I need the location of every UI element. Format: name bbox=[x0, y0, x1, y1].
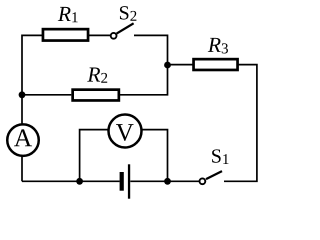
wire: S2 fixed contact, right and down to R2 right pin bbox=[120, 35, 168, 94]
switch S2 blade bbox=[117, 23, 134, 33]
voltmeter letter V bbox=[116, 124, 134, 141]
label S1 bbox=[212, 149, 228, 164]
wire: R3 right pin, down right side, to S1 fixed contact bbox=[224, 65, 257, 182]
wire: voltmeter right leg to bottom junction bbox=[141, 130, 168, 182]
wire: S1 hinge to battery positive plate bbox=[130, 180, 199, 182]
wire: junction to R3 left pin bbox=[168, 64, 194, 66]
label R2 bbox=[87, 68, 107, 83]
label S2 bbox=[120, 6, 136, 21]
wire: battery negative plate to bottom-left corner bbox=[22, 180, 120, 182]
battery B1 negative plate (short thick) bbox=[120, 172, 124, 191]
wire: left junction to R2 left pin bbox=[22, 94, 71, 96]
ammeter letter A bbox=[14, 129, 32, 146]
ammeter A1 circle bbox=[7, 124, 39, 156]
label R3 bbox=[208, 38, 228, 54]
wire: ammeter bottom to bottom-left corner bbox=[21, 156, 23, 182]
switch S1 hinge circle bbox=[200, 178, 206, 184]
node: junction of voltmeter right leg on bottom wire bbox=[164, 178, 171, 185]
label R1 bbox=[58, 7, 78, 22]
switch S2 hinge circle bbox=[111, 33, 117, 39]
wire: voltmeter left leg from bottom junction up and right to voltmeter bbox=[80, 130, 109, 182]
switch S1 blade bbox=[206, 171, 222, 179]
resistor R3 bbox=[194, 59, 238, 70]
wire: from R1 left pin, top-left corner, down left side to ammeter top bbox=[22, 35, 44, 124]
voltmeter V1 circle bbox=[109, 115, 142, 148]
node: junction of S2/R2 branch with R3 branch bbox=[164, 62, 171, 69]
resistor R2 bbox=[73, 90, 119, 101]
node: junction of voltmeter left leg on bottom wire bbox=[76, 178, 83, 185]
battery B1 positive plate (long thin) bbox=[128, 164, 130, 198]
node: junction of R2 branch on left side wire bbox=[19, 91, 26, 98]
wire: R1 right pin to switch S2 hinge bbox=[89, 34, 111, 36]
resistor R1 bbox=[43, 29, 88, 40]
